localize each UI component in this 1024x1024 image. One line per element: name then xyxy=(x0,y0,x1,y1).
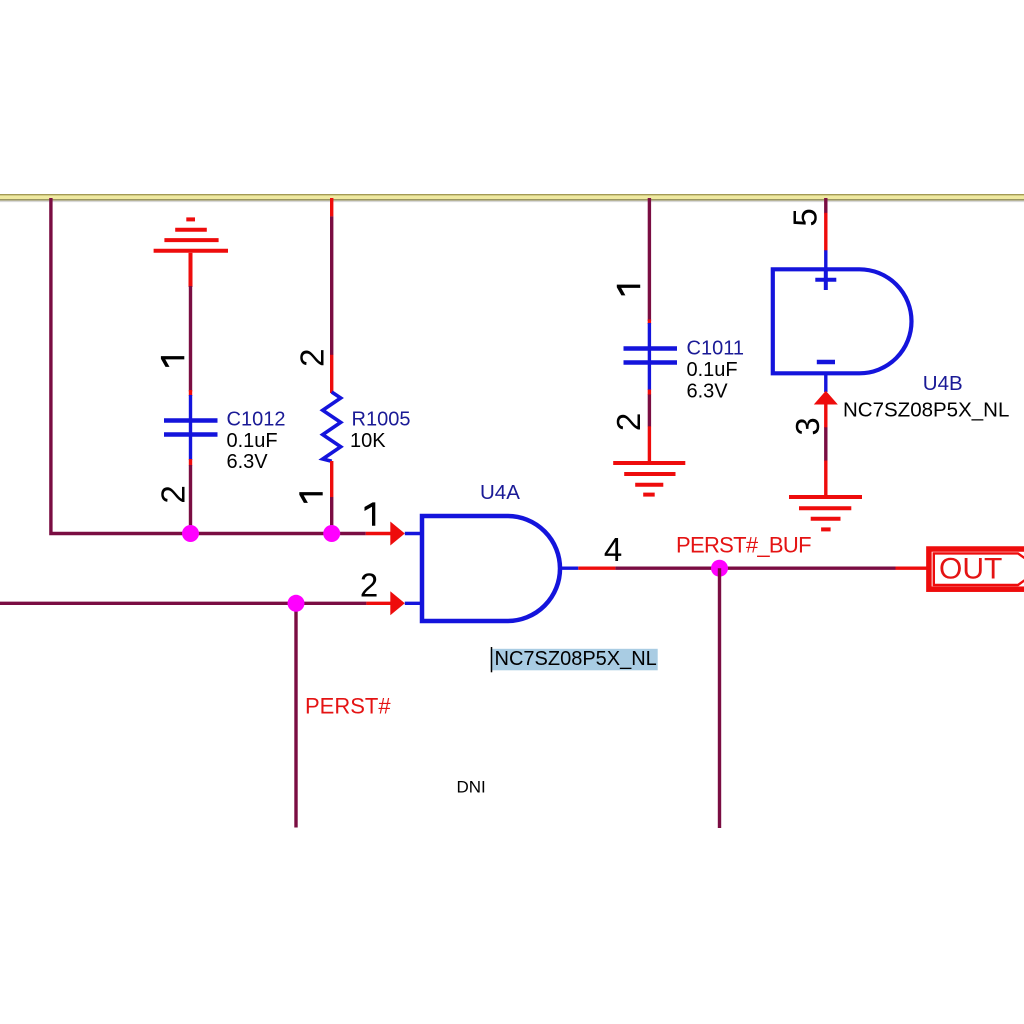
red pin tip C1012 pin 2 xyxy=(189,459,192,466)
red pin tip C1012 pin 1 xyxy=(189,390,192,396)
text cursor caret xyxy=(491,647,493,672)
wire: C1011 pin 1 net from bus xyxy=(648,198,651,321)
wire: PERST#_BUF vertical drop xyxy=(718,568,721,828)
wire: R1005 pin 1 down to junction xyxy=(330,497,333,534)
wire: red ground stub C1011 xyxy=(648,426,651,462)
wire: R1005 pin 2 net segment xyxy=(330,216,333,355)
svg-text:0.1uF: 0.1uF xyxy=(687,359,738,381)
part name highlight (selected text) xyxy=(491,649,658,671)
pin number 1 (C1011) rotated xyxy=(617,285,640,296)
red pin lead U4B pin 3 xyxy=(824,404,827,428)
wire: C1012 pin 1 net segment xyxy=(189,286,192,392)
pin arrow U4B pin 3 (points up) xyxy=(814,391,838,405)
svg-text:C1011: C1011 xyxy=(687,337,744,359)
wire: U4B pin 3 net segment xyxy=(824,427,827,461)
ground (inverted, above C1012) xyxy=(154,219,228,287)
pin number 1 (C1012) rotated xyxy=(161,356,184,367)
power bus net (horizontal band) xyxy=(0,194,1024,201)
svg-text:PERST#: PERST# xyxy=(305,694,391,719)
red pin lead R1005 pin 2 xyxy=(330,355,333,393)
wire: left vertical branch from bus + horizontal run to gate input 1 xyxy=(51,198,366,534)
wire: red pin lead into U4A input pin 2 xyxy=(366,602,391,605)
wire: PERST# horizontal net into U4A input pin 2 xyxy=(0,602,366,605)
pin number 1 (U4A) xyxy=(365,502,376,525)
svg-text:OUT: OUT xyxy=(939,552,1002,585)
junction at C1012 xyxy=(182,525,199,542)
wire: U4A output blue stub xyxy=(561,567,578,570)
blue pin stub U4B pin 5 xyxy=(824,250,827,270)
red pin lead U4B pin 5 xyxy=(824,213,827,251)
junction at R1005 xyxy=(323,525,340,542)
pin arrow U4A pin 2 xyxy=(390,591,405,615)
minus input mark (U4B) xyxy=(817,360,835,365)
op-amp style AND gate U4A body xyxy=(422,516,560,621)
wire: C1011 pin 2 net segment xyxy=(648,395,651,427)
junction on PERST#_BUF xyxy=(711,560,728,577)
svg-text:4: 4 xyxy=(604,531,622,568)
capacitor C1011 xyxy=(624,323,678,390)
svg-text:NC7SZ08P5X_NL: NC7SZ08P5X_NL xyxy=(495,648,657,670)
red pin lead U4A pin 4 xyxy=(578,567,615,570)
capacitor C1012 xyxy=(164,395,218,460)
svg-text:2: 2 xyxy=(294,349,331,367)
blue pin stub U4B pin 3 xyxy=(824,373,827,392)
svg-text:C1012: C1012 xyxy=(227,409,286,431)
svg-text:10K: 10K xyxy=(350,430,386,452)
red pin tip C1011 pin 2 xyxy=(648,390,651,396)
ground under U4B xyxy=(789,497,862,529)
resistor R1005 xyxy=(323,392,341,461)
red pin lead R1005 pin 1 xyxy=(330,461,333,497)
wire: U4B pin 5 net from bus xyxy=(824,198,827,214)
wire: red pin lead into U4A input pin 1 xyxy=(366,532,391,535)
svg-text:U4B: U4B xyxy=(923,372,963,395)
plus input mark (U4B) xyxy=(815,269,836,290)
svg-text:0.1uF: 0.1uF xyxy=(227,430,278,452)
wire: PERST# vertical drop below junction xyxy=(294,603,297,827)
svg-text:R1005: R1005 xyxy=(352,408,411,430)
svg-text:DNI: DNI xyxy=(457,778,486,797)
wire: red lead into OUT port xyxy=(896,567,929,570)
svg-text:6.3V: 6.3V xyxy=(687,381,729,403)
port OUT inner frame xyxy=(934,553,1024,585)
svg-text:PERST#_BUF: PERST#_BUF xyxy=(676,532,811,557)
pin number 1 (R1005) rotated xyxy=(299,492,322,503)
wire: PERST#_BUF net horizontal xyxy=(615,567,895,570)
wire: R1005 top red tap from bus xyxy=(330,198,333,216)
svg-text:U4A: U4A xyxy=(480,481,520,504)
AND gate U4B body xyxy=(773,269,912,373)
wire: blue pin stub U4A pin 2 xyxy=(405,602,421,605)
svg-text:2: 2 xyxy=(360,566,378,603)
ground under C1011 xyxy=(613,463,685,495)
wire: blue pin stub U4A pin 1 xyxy=(405,532,421,535)
svg-text:NC7SZ08P5X_NL: NC7SZ08P5X_NL xyxy=(843,399,1009,422)
svg-text:3: 3 xyxy=(789,417,826,435)
pin arrow U4A pin 1 xyxy=(390,522,405,546)
svg-text:6.3V: 6.3V xyxy=(227,451,269,473)
svg-text:2: 2 xyxy=(610,413,647,431)
wire: red ground stub U4B xyxy=(824,461,827,497)
red pin tip C1011 pin 1 xyxy=(648,320,651,325)
wire: C1012 pin 2 down to junction xyxy=(189,465,192,534)
svg-text:5: 5 xyxy=(787,208,824,226)
port OUT outer frame xyxy=(929,549,1024,589)
junction on PERST# net xyxy=(288,595,305,612)
svg-text:2: 2 xyxy=(155,485,192,503)
